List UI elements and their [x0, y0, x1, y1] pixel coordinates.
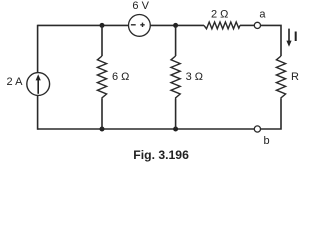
svg-text:6 V: 6 V [132, 0, 149, 12]
svg-text:2 Ω: 2 Ω [211, 9, 228, 21]
node junction dot top 3-ohm branch [173, 23, 178, 28]
wire 2-ohm to terminal a [240, 24, 254, 26]
node junction dot bottom 3-ohm branch [173, 127, 178, 132]
wire top rail left segment [38, 24, 129, 26]
svg-text:3 Ω: 3 Ω [186, 71, 203, 83]
svg-text:a: a [259, 9, 266, 21]
wire 3-ohm branch top [175, 25, 177, 56]
svg-text:Fig. 3.196: Fig. 3.196 [133, 148, 189, 162]
terminal b open circle [254, 126, 260, 132]
current source I1 arrow [36, 74, 41, 94]
wire terminal a to resistor R top [261, 25, 282, 56]
voltage source V1 circle [129, 15, 151, 37]
svg-text:R: R [291, 71, 299, 83]
node junction dot bottom 6-ohm branch [100, 127, 105, 132]
svg-text:b: b [264, 135, 270, 147]
voltage source V1 plus sign [140, 23, 144, 27]
resistor 3-ohm zigzag [171, 56, 180, 99]
resistor 6-ohm zigzag [97, 56, 106, 99]
current source I1 circle [27, 73, 50, 96]
wire bottom rail [38, 128, 255, 130]
wire 6-ohm branch bottom [101, 99, 103, 129]
voltage source V1 minus sign [131, 24, 136, 26]
node junction dot top 6-ohm branch [100, 23, 105, 28]
svg-text:2 A: 2 A [7, 76, 24, 88]
terminal a open circle [254, 22, 260, 28]
svg-text:I: I [294, 28, 298, 44]
svg-text:6 Ω: 6 Ω [112, 71, 129, 83]
wire left rail upper [37, 25, 39, 130]
wire resistor R bottom to terminal b [261, 99, 282, 129]
wire 6-ohm branch top [101, 25, 103, 56]
resistor 2-ohm zigzag [204, 22, 240, 29]
wire 3-ohm branch bottom [175, 99, 177, 129]
wire top rail middle segment [150, 24, 204, 26]
resistor R zigzag [276, 56, 285, 99]
current arrow I [286, 29, 291, 47]
